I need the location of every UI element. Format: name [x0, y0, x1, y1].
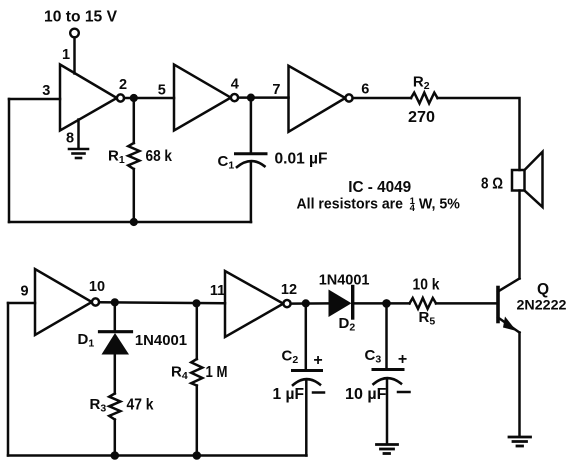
node R3 bottom on rail — [111, 451, 120, 460]
wire R5 to Q base — [436, 302, 497, 305]
wire pin 12 to D2 — [291, 302, 329, 305]
wire Q emitter to ground — [518, 333, 521, 437]
capacitor C2 1uF — [293, 303, 322, 455]
svg-text:10 k: 10 k — [413, 277, 440, 294]
node pin 10 junction — [111, 298, 119, 306]
svg-text:IC - 4049: IC - 4049 — [348, 179, 411, 196]
node pin 2 junction — [130, 94, 138, 102]
inverter U1C (pins 7,6) — [289, 66, 353, 132]
ground under pin 8 — [69, 149, 88, 158]
svg-text:W, 5%: W, 5% — [419, 196, 460, 213]
ground under C3 — [377, 445, 398, 454]
svg-text:4: 4 — [231, 77, 239, 93]
node pin 4 junction — [247, 94, 255, 102]
capacitor C3 10uF — [373, 303, 403, 443]
resistor R5 10k — [410, 298, 437, 309]
wire pin 10 to pin 11 — [99, 301, 225, 304]
wire pin 4 to pin 7 — [238, 96, 288, 99]
wire left feedback vertical (top osc) — [8, 99, 11, 222]
inverter U1D (pins 9,10) — [35, 269, 99, 335]
svg-text:7: 7 — [272, 82, 280, 98]
resistor R2 270 — [411, 93, 438, 104]
wire left feedback vertical (bottom osc) — [7, 303, 10, 456]
svg-text:11: 11 — [210, 283, 225, 299]
diode D1 1N4001 — [100, 302, 132, 393]
wire pin 3 input — [9, 98, 60, 101]
node pin 11 input junction — [192, 299, 200, 307]
svg-text:0.01 µF: 0.01 µF — [275, 151, 328, 168]
svg-text:All resistors are: All resistors are — [297, 196, 404, 213]
svg-text:Q: Q — [537, 281, 549, 298]
node pin 12 junction — [302, 299, 310, 307]
svg-text:3: 3 — [42, 83, 50, 99]
top bottom rail — [9, 221, 251, 224]
wire pin 8 to ground — [77, 120, 80, 148]
wire pin 6 to R2 — [353, 97, 411, 100]
svg-text:8 Ω: 8 Ω — [481, 176, 503, 193]
svg-text:+: + — [313, 352, 322, 369]
ground under Q emitter — [509, 437, 531, 446]
svg-text:5: 5 — [158, 82, 166, 98]
inverter U1E (pins 11,12) — [225, 271, 291, 337]
transistor Q 2N2222 — [498, 279, 520, 333]
node R4 bottom on rail — [193, 451, 202, 460]
resistor R4 1M — [191, 303, 202, 455]
node R1 bottom on rail — [130, 218, 138, 226]
wire pin 1: terminal to U1A top — [73, 38, 76, 74]
capacitor C1 — [236, 98, 267, 222]
label minus (C3) — [398, 391, 410, 394]
svg-text:68 k: 68 k — [146, 148, 173, 165]
svg-text:1 M: 1 M — [206, 364, 228, 381]
svg-text:2N2222: 2N2222 — [517, 297, 567, 313]
svg-text:1 µF: 1 µF — [273, 386, 305, 403]
node D2 cathode junction — [382, 299, 391, 308]
wire R2 to speaker — [438, 98, 520, 170]
svg-text:12: 12 — [281, 282, 297, 298]
svg-text:10 to 15 V: 10 to 15 V — [44, 9, 117, 26]
inverter U1B (pins 5,4) — [174, 65, 238, 131]
svg-text:1N4001: 1N4001 — [319, 273, 370, 289]
svg-text:47 k: 47 k — [127, 397, 154, 414]
svg-text:6: 6 — [361, 82, 369, 98]
bottom ground rail — [8, 454, 307, 457]
wire D2 to R5 — [387, 302, 410, 305]
svg-text:9: 9 — [20, 284, 28, 300]
wire speaker to Q collector — [518, 191, 521, 279]
svg-text:10 µF: 10 µF — [345, 386, 387, 403]
svg-text:10: 10 — [89, 279, 105, 295]
diode D2 1N4001 — [329, 287, 387, 319]
speaker 8 ohm — [512, 152, 543, 207]
power terminal +V — [70, 29, 79, 38]
svg-text:4: 4 — [410, 203, 416, 214]
svg-text:1N4001: 1N4001 — [135, 333, 187, 349]
resistor R1 68k — [128, 98, 139, 222]
svg-text:+: + — [398, 351, 407, 368]
wire pin 2 to pin 5 — [124, 97, 174, 100]
svg-text:1: 1 — [62, 47, 70, 63]
wire pin 9 input — [8, 302, 35, 305]
svg-text:2: 2 — [119, 77, 127, 93]
svg-text:270: 270 — [408, 109, 435, 126]
svg-text:8: 8 — [66, 131, 74, 147]
resistor R3 47k — [109, 394, 120, 456]
inverter U1A (pins 3,2) — [60, 65, 124, 131]
label minus (C2) — [313, 391, 324, 394]
note All resistors are 1/4 W, 5% — [297, 196, 460, 215]
